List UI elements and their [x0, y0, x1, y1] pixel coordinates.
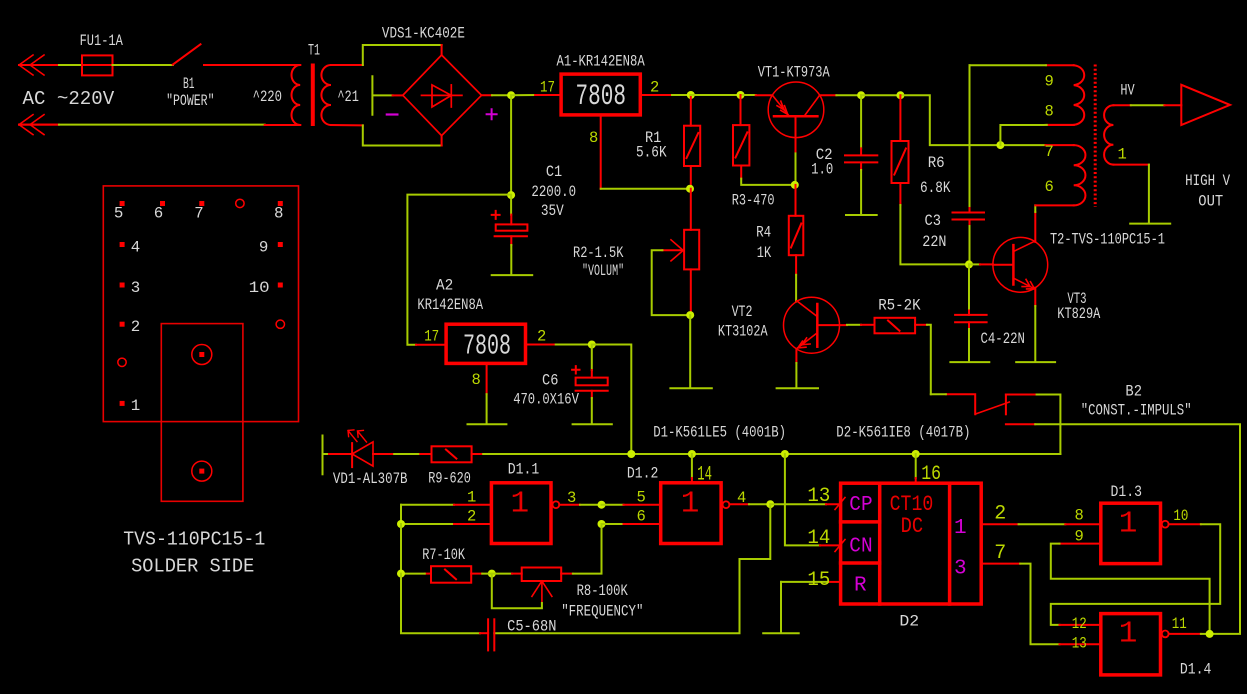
VT2 emitter diagonal with arrow: [797, 333, 816, 348]
svg-text:7: 7: [1045, 143, 1054, 161]
wire R5 to B2: [927, 325, 931, 395]
svg-text:2: 2: [131, 318, 140, 336]
svg-text:470.0X16V: 470.0X16V: [513, 390, 579, 408]
D1.2 input 6 wire: [602, 523, 624, 525]
switch B1 blade: [173, 44, 201, 64]
svg-text:R3-470: R3-470: [732, 191, 775, 209]
svg-text:R6: R6: [928, 154, 945, 172]
wire D2 pin7 to D1.4 input 13: [981, 563, 1020, 565]
svg-text:3: 3: [567, 489, 576, 507]
svg-text:14: 14: [697, 464, 712, 487]
VT1 collector diagonal: [805, 95, 820, 115]
svg-text:1: 1: [681, 486, 700, 521]
footprint pad 7: [199, 201, 204, 206]
switch B2: [946, 394, 1037, 424]
svg-text:C5-68N: C5-68N: [507, 617, 556, 635]
D1.2 input 5 wire: [602, 504, 624, 506]
wire left vertical down to C5: [401, 574, 480, 634]
regulator A2 7808 box: [446, 324, 525, 363]
svg-text:2: 2: [467, 508, 476, 526]
LED VD1: [329, 442, 392, 467]
svg-text:1: 1: [131, 397, 140, 415]
node D1.1 input2 junction: [397, 520, 405, 528]
svg-text:1: 1: [467, 489, 476, 507]
wire T2 pin 9 entry: [970, 64, 1047, 66]
svg-text:R9-620: R9-620: [428, 469, 471, 487]
wire AC top to fuse: [59, 64, 82, 66]
wire rail VT1 to C2 node: [820, 94, 837, 96]
transformer T2 core dashed: [1094, 65, 1097, 208]
node rail at R3 top: [737, 91, 745, 99]
svg-text:9: 9: [1075, 527, 1084, 545]
ground C1: [492, 245, 533, 275]
svg-text:A2: A2: [436, 277, 453, 295]
svg-text:^21: ^21: [337, 88, 359, 106]
wire R7 to R8: [482, 573, 512, 575]
gate D1.4 box: [1101, 614, 1161, 675]
svg-text:9: 9: [1045, 73, 1054, 91]
node C1 top junction: [507, 191, 515, 199]
capacitor C5: [480, 619, 494, 650]
wire T2 pin 8: [1000, 125, 1045, 145]
D1.4 output wire: [1169, 633, 1201, 635]
wire HV output: [1131, 104, 1165, 106]
node R1 bottom junction: [686, 185, 694, 193]
resistor R1: [684, 95, 700, 189]
svg-text:"CONST.-IMPULS": "CONST.-IMPULS": [1081, 402, 1192, 420]
svg-text:13: 13: [1072, 635, 1087, 653]
wire D2 pin2 to D1.3 input 8: [981, 523, 1018, 525]
svg-text:17: 17: [540, 78, 555, 96]
footprint pad 4: [120, 242, 125, 247]
svg-text:1.0: 1.0: [811, 161, 833, 179]
svg-text:"VOLUM": "VOLUM": [582, 262, 624, 280]
svg-text:FU1-1A: FU1-1A: [80, 32, 124, 50]
svg-text:1K: 1K: [757, 244, 772, 262]
svg-text:17: 17: [424, 328, 439, 346]
footprint hole right: [276, 320, 284, 328]
B2 bottom contact wire to D1.4 output: [1035, 424, 1240, 634]
D2 CP input tick: [835, 498, 845, 510]
svg-text:^220: ^220: [253, 88, 282, 106]
VT3 emitter diagonal with arrow: [1014, 278, 1035, 289]
wire rail corner to T2 pins 7-8: [900, 95, 1045, 145]
svg-text:9: 9: [259, 238, 268, 256]
bridge minus label: [387, 113, 398, 115]
svg-text:5: 5: [637, 489, 646, 507]
svg-text:4: 4: [737, 489, 746, 507]
VT3 collector diagonal: [1014, 241, 1035, 251]
ground C4: [950, 329, 989, 362]
node pin8 tee on pin7 wire: [996, 141, 1004, 149]
wire R4 to VT2 collector: [795, 275, 797, 302]
node bridge output junction: [507, 91, 515, 99]
svg-text:D1.2: D1.2: [627, 465, 659, 483]
node R2 bottom junction: [686, 311, 694, 319]
D1.1 input 2 wire: [401, 505, 454, 524]
wire A1 pin8 down: [600, 115, 602, 189]
footprint hole left: [118, 358, 126, 366]
D1.2 output wire to CP: [729, 503, 749, 505]
svg-text:VT2: VT2: [732, 303, 753, 321]
VT2 collector diagonal: [797, 301, 818, 317]
svg-text:D1-K561LE5 (4001B): D1-K561LE5 (4001B): [653, 424, 786, 442]
wire node down to C1: [510, 95, 512, 195]
svg-text:2: 2: [537, 328, 546, 346]
LED left terminal bar: [322, 436, 324, 475]
gate D1.1 box: [491, 483, 551, 544]
node D1.1 out junction: [598, 501, 606, 509]
node VT1 base junction: [791, 181, 799, 189]
svg-text:C4-22N: C4-22N: [981, 330, 1025, 348]
wire VD1 to R9: [420, 453, 431, 455]
capacitor C1: [495, 195, 528, 245]
R2 wiper arrow: [662, 240, 683, 261]
bridge VDS1 diamond: [393, 45, 482, 146]
transformer T1 core: [311, 64, 315, 127]
svg-text:"FREQUENCY": "FREQUENCY": [561, 603, 643, 621]
svg-text:7: 7: [194, 204, 203, 222]
svg-text:6: 6: [1045, 178, 1054, 196]
svg-text:D2-K561IE8 (4017B): D2-K561IE8 (4017B): [836, 424, 970, 442]
transformer T1 secondary winding: [321, 65, 331, 125]
gate D1.3 output bubble: [1162, 521, 1169, 528]
svg-text:B1: B1: [183, 75, 195, 93]
VT2 emitter to ground: [795, 349, 797, 363]
A2 output wire: [526, 344, 556, 346]
svg-text:OUT: OUT: [1198, 192, 1223, 210]
ground R input: [763, 582, 799, 633]
footprint pad 3: [120, 283, 125, 288]
transformer T2 HV winding: [1104, 105, 1149, 164]
footprint pad 6: [160, 201, 165, 206]
svg-text:CP: CP: [849, 494, 872, 517]
svg-text:VD1-AL307B: VD1-AL307B: [333, 470, 408, 488]
B2 top contact to bus corner: [1037, 395, 1061, 455]
node D1.2 in6 junction: [598, 520, 606, 528]
regulator A1 7808 box: [561, 74, 640, 115]
svg-text:5: 5: [114, 204, 123, 222]
HV output arrow: [1181, 85, 1230, 125]
svg-text:7808: 7808: [576, 80, 627, 114]
wire rail R3 to VT1: [741, 94, 756, 96]
C1 plus sign: [492, 211, 500, 219]
svg-text:R5-2K: R5-2K: [878, 296, 921, 314]
bridge VDS1 AC terminal T: [372, 76, 392, 115]
supply bus horizontal: [323, 453, 1061, 455]
ground C2: [846, 170, 877, 215]
node D1.2 out junction: [766, 500, 774, 508]
wire T1 secondary top to bridge: [331, 64, 363, 66]
wire fuse to switch: [113, 64, 173, 66]
node rail at C2: [857, 91, 865, 99]
node A2 output junction: [588, 341, 596, 349]
svg-text:12: 12: [1072, 615, 1087, 633]
VT3 collector wire to T2 pin 6: [1034, 212, 1036, 242]
D1.2 pin 14 wire from bus: [691, 454, 693, 478]
capacitor C3: [953, 208, 985, 226]
svg-text:4: 4: [131, 238, 140, 256]
VT3 emitter to ground: [1034, 288, 1036, 306]
wire R3 bottom to VT1 base node: [741, 179, 795, 185]
R8 wiper arrow: [532, 581, 552, 603]
VT1 base stem down: [795, 116, 797, 153]
svg-text:D2: D2: [899, 612, 919, 630]
VT3 base bar: [1012, 245, 1015, 284]
svg-text:1: 1: [510, 486, 529, 521]
svg-text:8: 8: [1045, 103, 1054, 121]
svg-text:8: 8: [472, 371, 481, 389]
ground R2: [670, 315, 711, 388]
ground T2 pin 1: [1130, 165, 1170, 224]
transformer T2 winding 9-8: [1046, 65, 1084, 125]
wire junction to C5 feedback: [494, 504, 770, 633]
svg-text:VDS1-KC402E: VDS1-KC402E: [382, 24, 465, 42]
resistor R4: [789, 185, 804, 275]
gate D1.3 box: [1101, 503, 1161, 563]
connector footprint outer body: [103, 186, 298, 422]
svg-text:D1.1: D1.1: [508, 460, 540, 478]
svg-text:8: 8: [1075, 506, 1084, 524]
svg-text:14: 14: [807, 527, 830, 550]
VT1 emitter diagonal with arrows: [773, 95, 789, 115]
svg-text:DC: DC: [901, 514, 924, 539]
resistor R5: [875, 318, 928, 334]
AC input arrow top: [19, 55, 59, 75]
svg-text:6: 6: [154, 204, 163, 222]
svg-text:T2-TVS-110PC15-1: T2-TVS-110PC15-1: [1050, 231, 1165, 249]
D1.1 input 1 wire: [401, 504, 454, 506]
svg-text:7: 7: [994, 542, 1006, 565]
svg-text:C3: C3: [925, 212, 942, 230]
bridge VDS1 input box wires: [363, 45, 442, 146]
svg-text:13: 13: [807, 485, 830, 508]
fuse FU1-1A: [82, 55, 113, 75]
transformer T1 primary winding: [292, 65, 301, 125]
D1.3 input 9 wire from D1.4 output: [1060, 543, 1101, 545]
footprint pad 9: [278, 242, 283, 247]
AC input arrow bottom: [19, 115, 59, 135]
node D1.4 output junction: [1206, 630, 1214, 638]
gate D1.2 output bubble: [723, 501, 730, 508]
node left vertical at R7: [397, 570, 405, 578]
svg-text:11: 11: [1172, 615, 1187, 633]
svg-text:HIGH V: HIGH V: [1185, 172, 1230, 190]
svg-text:16: 16: [921, 463, 941, 486]
svg-text:B2: B2: [1125, 383, 1142, 401]
VD1 light arrows: [348, 430, 367, 442]
gate D1.4 output bubble: [1162, 631, 1169, 638]
VT1 base bar: [774, 115, 817, 118]
node bus at D1.2 pin14: [688, 450, 696, 458]
VT2 base bar: [816, 304, 819, 347]
capacitor C2: [845, 95, 877, 170]
svg-text:2: 2: [650, 78, 659, 96]
svg-text:R: R: [854, 575, 867, 598]
A2 input red stub: [416, 344, 446, 346]
svg-text:C1: C1: [546, 163, 562, 181]
footprint mount hole A: [192, 345, 212, 365]
svg-text:2: 2: [994, 503, 1006, 526]
D1.3 output wire to D1.4 input 12: [1169, 523, 1201, 525]
wire T2 pin 9 down to C3: [969, 65, 971, 208]
wire R8 right up to D1.2 input: [573, 524, 602, 574]
D2 CN input tick: [835, 540, 845, 552]
svg-text:KT829A: KT829A: [1057, 305, 1100, 323]
wire base node to VT3: [969, 263, 980, 265]
svg-text:7808: 7808: [463, 329, 511, 362]
wire A1 output: [640, 94, 672, 96]
counter D2 box: [841, 483, 982, 604]
R8 wiper wire: [492, 574, 542, 609]
svg-text:R4: R4: [756, 224, 771, 242]
wire rail R1 to R3: [691, 94, 741, 96]
svg-text:TVS-110PC15-1: TVS-110PC15-1: [123, 529, 265, 551]
svg-text:3: 3: [954, 557, 967, 580]
footprint mount hole B: [192, 461, 212, 481]
transistor VT2 circle: [784, 297, 840, 353]
R2 wiper wire: [652, 250, 691, 315]
resistor R3: [733, 95, 749, 179]
svg-text:R8-100K: R8-100K: [577, 582, 629, 600]
wire T2 pin 8 stub: [1046, 124, 1047, 126]
wire left vertical to R7: [401, 524, 425, 574]
svg-text:1: 1: [1119, 507, 1138, 542]
svg-text:1: 1: [954, 517, 967, 540]
footprint hole top: [236, 199, 244, 207]
svg-text:D1.4: D1.4: [1180, 660, 1212, 678]
bridge VDS1 inner diode: [422, 85, 462, 107]
svg-text:8: 8: [589, 129, 598, 147]
wire C1 node left to A2 loop: [407, 195, 511, 345]
svg-text:1: 1: [1119, 617, 1138, 652]
svg-text:10: 10: [1173, 507, 1188, 525]
svg-text:"POWER": "POWER": [166, 92, 214, 110]
svg-text:AC ~220V: AC ~220V: [23, 88, 115, 110]
wire C3 bottom to base node: [969, 226, 971, 264]
bridge plus label: [487, 109, 497, 119]
footprint pad 10: [278, 283, 283, 288]
gate D1.1 output bubble: [553, 501, 560, 508]
svg-text:R2-1.5K: R2-1.5K: [573, 244, 624, 262]
transistor VT1 circle: [768, 82, 824, 138]
svg-text:1: 1: [1118, 146, 1127, 164]
C6 plus sign: [572, 366, 579, 373]
VT2 base line to R5: [817, 324, 847, 326]
svg-text:8: 8: [274, 204, 283, 222]
svg-text:VT1-KT973A: VT1-KT973A: [758, 63, 830, 81]
svg-text:KT3102A: KT3102A: [718, 322, 768, 340]
node rail at R1 top: [687, 91, 695, 99]
wire rail C2 to R6: [861, 94, 900, 96]
resistor R7: [425, 566, 482, 583]
svg-text:3: 3: [131, 279, 140, 297]
svg-text:SOLDER SIDE: SOLDER SIDE: [131, 556, 254, 578]
svg-text:CN: CN: [849, 535, 872, 558]
capacitor C4: [955, 264, 987, 329]
wire D2 pin16 from bus: [915, 454, 917, 478]
footprint pad 2: [120, 322, 125, 327]
footprint pad 8: [278, 201, 283, 206]
svg-text:HV: HV: [1120, 81, 1135, 99]
wire R6 bottom to base node: [900, 205, 969, 264]
potentiometer R8: [522, 568, 573, 582]
transistor VT3 circle: [993, 237, 1048, 292]
svg-text:T1: T1: [308, 42, 320, 60]
svg-text:D1.3: D1.3: [1111, 483, 1143, 501]
svg-text:R7-10K: R7-10K: [422, 546, 465, 564]
svg-text:KR142EN8A: KR142EN8A: [417, 296, 483, 314]
wire A2 output to bus: [592, 345, 632, 455]
wire CP input: [770, 503, 826, 505]
svg-text:2200.0: 2200.0: [531, 183, 576, 201]
footprint pad 5: [120, 201, 125, 206]
svg-text:15: 15: [807, 569, 830, 592]
wire T1 secondary bottom to bridge: [331, 124, 363, 126]
node R7-R8 junction: [488, 570, 496, 578]
svg-text:6: 6: [637, 508, 646, 526]
D1.1 output wire: [559, 504, 580, 506]
node rail at R6 top: [896, 91, 904, 99]
svg-text:22N: 22N: [922, 233, 946, 251]
resistor R6: [892, 95, 909, 205]
wire node to A1 input: [511, 94, 535, 96]
svg-text:5.6K: 5.6K: [636, 143, 667, 161]
svg-text:6.8K: 6.8K: [920, 179, 951, 197]
potentiometer R2: [684, 189, 699, 315]
footprint pad 1: [120, 401, 125, 406]
wire switch to T1 top: [204, 64, 300, 66]
ground C6: [573, 398, 612, 424]
capacitor C6: [576, 345, 608, 399]
svg-text:A1-KR142EN8A: A1-KR142EN8A: [557, 53, 646, 71]
svg-text:35V: 35V: [541, 202, 564, 220]
node bus at A2 drop: [627, 450, 635, 458]
B2 pole wire from R5: [931, 393, 946, 395]
wire R input: [828, 581, 841, 583]
wire bridge output to node: [482, 94, 493, 96]
wire CN input from bus: [785, 454, 820, 545]
svg-text:C6: C6: [542, 372, 558, 390]
node VT3 base junction: [965, 260, 973, 268]
node bus at D2 pin16: [912, 450, 920, 458]
A2 pin8 to ground: [486, 363, 488, 394]
connector footprint inner body: [161, 324, 243, 502]
VT3 base line: [993, 264, 1014, 266]
resistor R9: [432, 446, 482, 462]
gate D1.2 box: [661, 483, 721, 544]
wire AC bottom to T1: [19, 124, 59, 126]
svg-text:10: 10: [249, 279, 270, 297]
transformer T2 winding 7-6: [1035, 145, 1085, 205]
node bus at CN drop: [781, 450, 789, 458]
